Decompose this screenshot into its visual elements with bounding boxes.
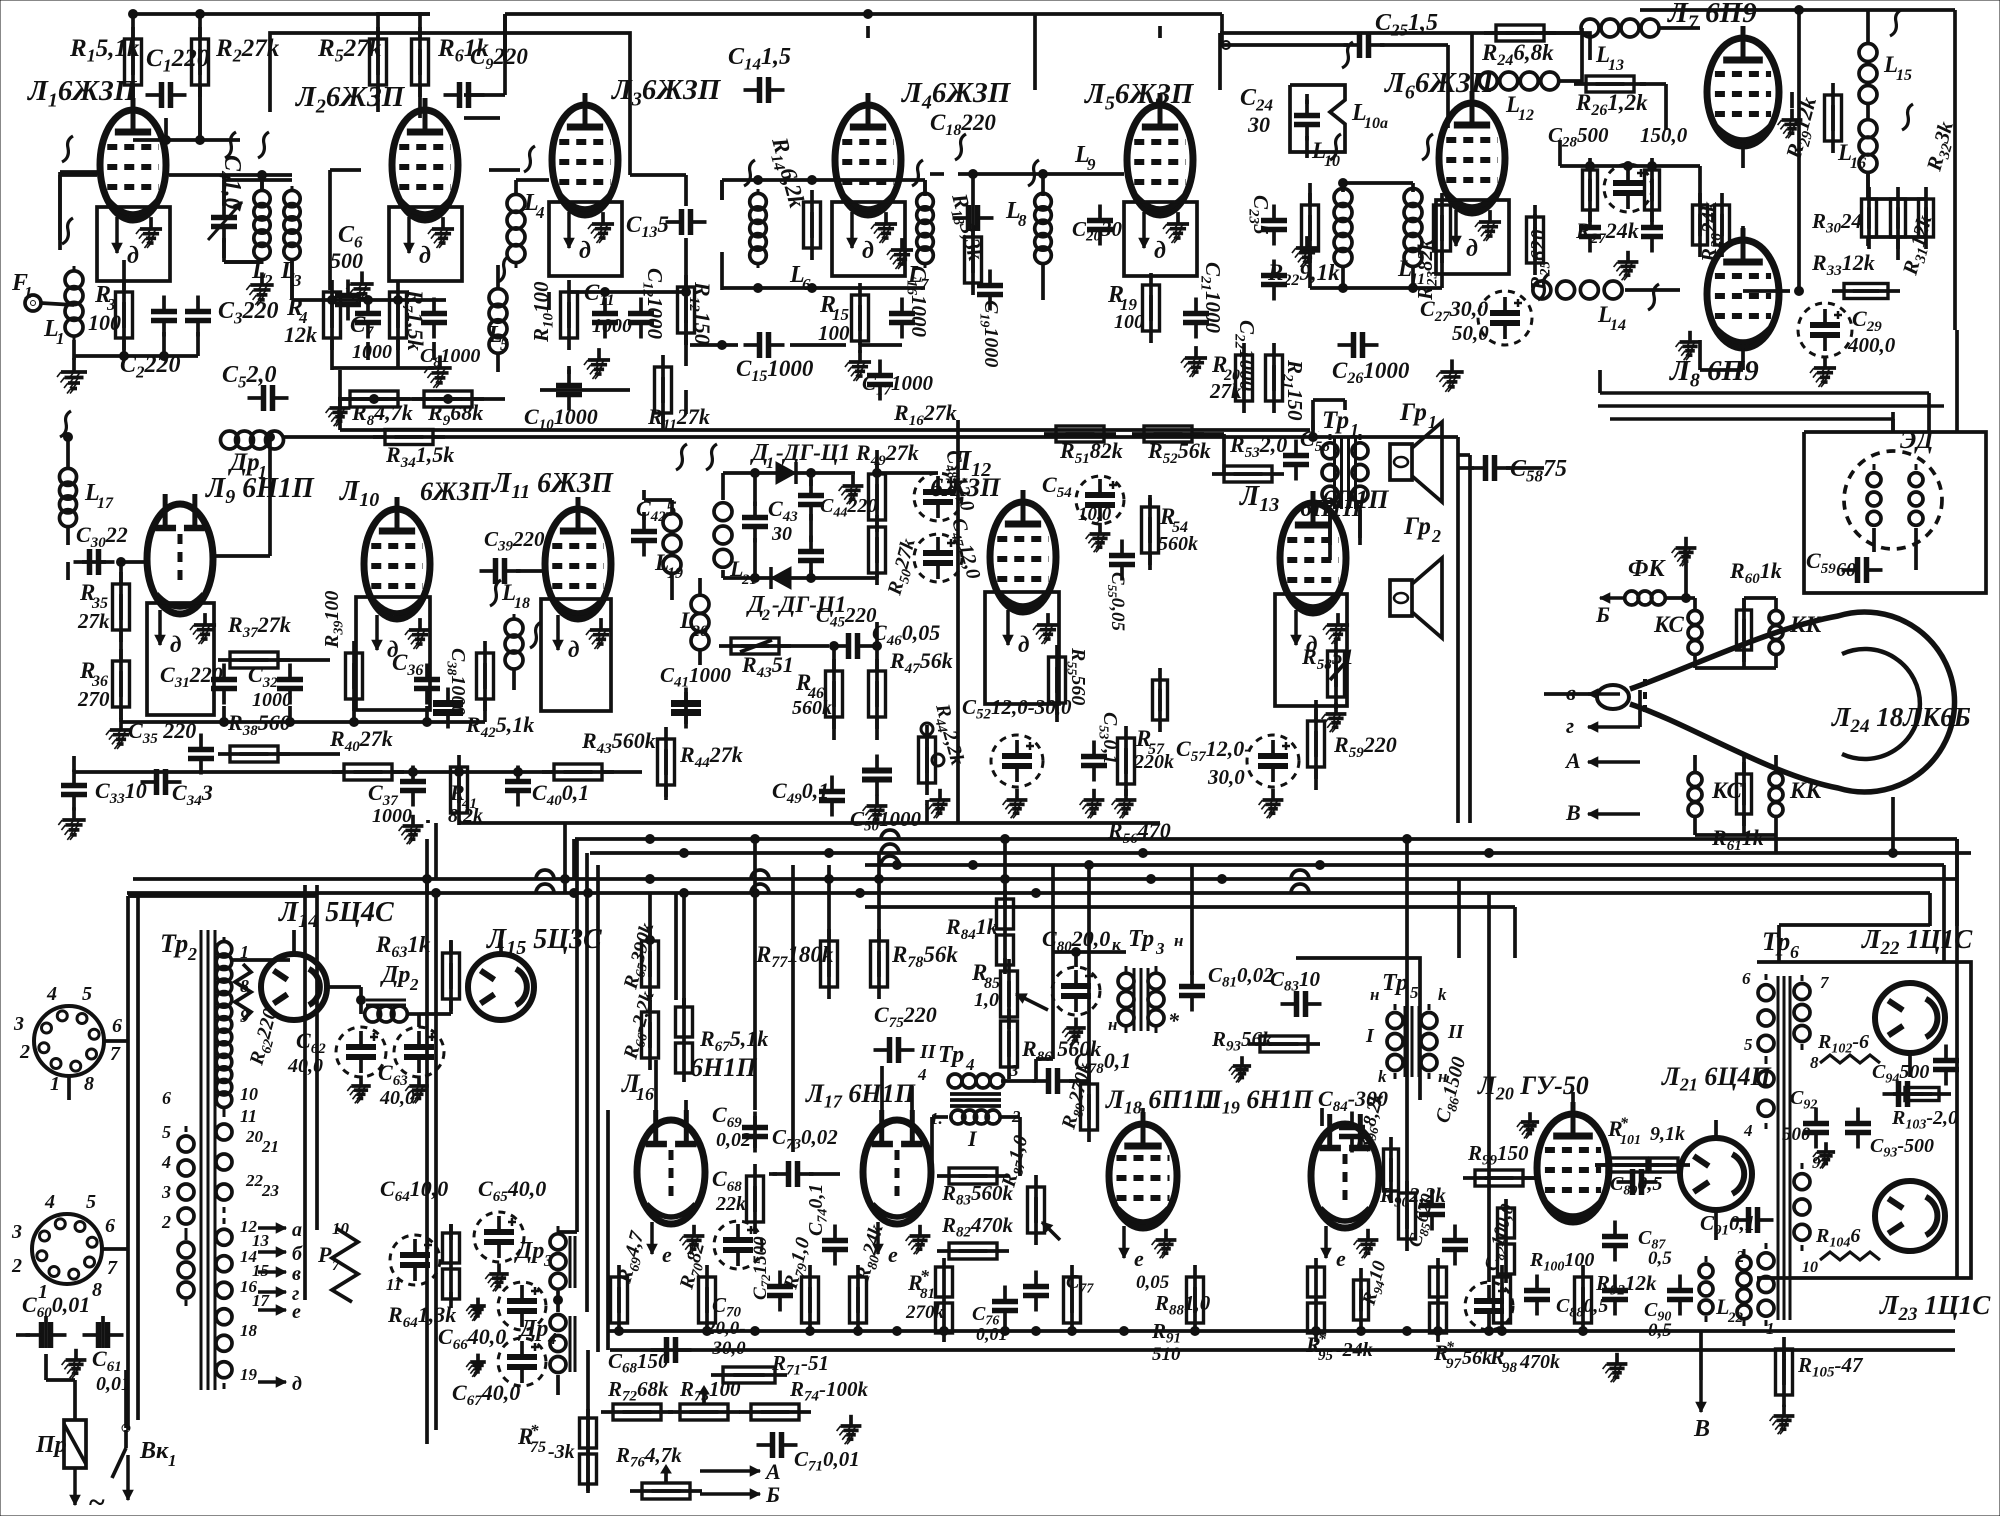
wire Тр3 [0,0,1,1]
svg-text:C6: C6 [338,222,363,251]
svg-text:6: 6 [1742,969,1751,988]
svg-text:C3220: C3220 [218,298,279,327]
wire mid band2 [340,400,1310,430]
coil L1 [43,266,83,348]
capacitor C25 [1344,10,1439,58]
svg-text:97: 97 [1446,1356,1462,1372]
svg-text:4: 4 [44,1191,55,1213]
svg-text:C24: C24 [1240,85,1273,114]
wire bottom right [0,0,1,1]
wire L20L21 [698,578,702,665]
capacitor C45 [798,536,877,631]
choke Др4 [518,1306,575,1381]
capacitor C46 [833,620,941,659]
svg-text:5: 5 [500,335,509,354]
svg-text:C161000: C161000 [903,266,931,338]
wire Л20 [1523,1092,1609,1178]
wire R40 row [74,768,666,801]
svg-text:R3312k: R3312k [1811,250,1875,279]
resistor R47 [869,648,953,729]
ground [1112,789,1137,818]
svg-text:R791,0: R791,0 [779,1235,817,1293]
ground [1080,789,1105,818]
svg-text:560k: 560k [1158,533,1198,555]
svg-text:Гр: Гр [1399,399,1427,426]
resistor R91 [1151,1265,1204,1365]
arrow B [1693,1380,1710,1442]
tube Л1 6ЖЗП [27,75,170,281]
wire det out [779,622,944,823]
ground [1003,789,1028,818]
svg-text:2: 2 [11,1255,22,1277]
diode Д2 [746,567,846,624]
ground [1259,789,1284,818]
svg-text:4: 4 [965,1055,975,1074]
wire R54 area [1148,498,1152,570]
coil L4 [507,189,545,268]
resistor R82 [937,1213,1014,1259]
svg-text:27k: 27k [77,609,110,633]
svg-text:R968k: R968k [427,400,483,429]
wire stage2 [330,15,520,290]
wire C75 [0,0,1,1]
wire stage3 box [505,14,1590,90]
svg-text:R2382k: R2382k [1413,239,1441,301]
resistor small [1583,158,1660,222]
wire Л4 grids [722,180,925,200]
svg-text:C191000: C191000 [977,300,1002,367]
coil L3 [280,186,302,290]
wire bus [127,891,1930,895]
svg-text:Др: Др [514,1238,544,1264]
svg-text:Л46ЖЗП: Л46ЖЗП [901,77,1012,113]
svg-text:Гр: Гр [1403,513,1431,540]
wire Л6 plate [1470,33,1474,92]
capacitor C78 [1033,1048,1132,1094]
arrow Б2 [700,1482,780,1507]
resistor R19 [1107,273,1160,343]
svg-text:C710,01: C710,01 [794,1447,860,1475]
diode Д1 [750,440,850,484]
resistor R52 [1132,426,1211,467]
svg-text:Вк: Вк [139,1438,169,1464]
resistor R18 [943,190,989,295]
resistor R78 [871,929,959,999]
svg-text:4: 4 [1743,1121,1753,1140]
capacitor C71 [757,1432,860,1475]
capacitor C40 [505,766,589,809]
resistor R53 [1212,432,1287,482]
resistor R90 [1379,1181,1446,1251]
resistor R54 [1142,495,1199,565]
svg-text:C62: C62 [296,1028,326,1057]
wire grid row [60,175,97,240]
label 6П1П Тр1 [1300,496,1363,522]
capacitor C61 [83,1322,132,1395]
svg-text:1000: 1000 [592,315,632,337]
resistor R5 [317,27,387,97]
wire Др1 bus [282,435,1458,439]
resistor R67 [676,998,769,1082]
capacitor C85 [1405,1191,1468,1265]
wire Л11 stage [514,571,544,690]
ground [1603,1353,1628,1382]
wire CRT bottom [1889,797,1898,858]
svg-text:C61: C61 [92,1346,122,1375]
wire det top [723,450,938,506]
svg-text:R694,7: R694,7 [613,1228,652,1287]
resistor R103 [1891,1088,1958,1133]
capacitor C75 [874,1002,937,1063]
tube Л11 6ЖЗП [491,468,614,662]
wire R4 bus [332,340,434,370]
wire КС2 [1695,755,1776,853]
capacitor C60 [22,1292,90,1348]
svg-text:R2724k: R2724k [1575,218,1639,247]
arrow А2 [700,1459,781,1484]
ground [485,1264,509,1292]
svg-text:C135: C135 [626,212,669,241]
socket X2 [11,1191,118,1303]
resistor R74 [739,1377,869,1420]
svg-text:C141,5: C141,5 [728,44,791,73]
svg-text:C411000: C411000 [660,663,732,691]
svg-text:1000: 1000 [352,341,392,363]
svg-text:н: н [1174,931,1183,950]
svg-text:C68: C68 [712,1166,742,1195]
tube Л19 6Н1П [1203,1085,1379,1271]
wire Л16 anode [650,988,686,1122]
capacitor C17 [862,360,934,401]
tube Л12 6ЖЗП [930,446,1059,657]
svg-text:4: 4 [547,1329,557,1348]
resistor R35 [77,572,130,642]
svg-text:C45220: C45220 [816,603,877,631]
wire Л5 plate [1035,14,1222,45]
svg-text:Л14 5Ц4С: Л14 5Ц4С [278,897,394,932]
coil L9 [1074,142,1096,174]
ground [246,272,273,304]
wire C13 [630,175,691,297]
svg-text:R1046: R1046 [1815,1225,1860,1250]
wire Л10 stage [0,0,1,1]
resistor R50 [869,515,923,599]
cathode box Л12 [985,592,1059,704]
svg-text:R73100: R73100 [679,1377,741,1405]
svg-text:1: 1 [766,455,774,472]
pot R44b [919,701,969,795]
svg-text:R675,1k: R675,1k [699,1026,768,1055]
capacitor C50 [850,755,922,835]
ground [584,348,610,379]
coil L8 [1005,189,1051,268]
svg-text:C261000: C261000 [1332,358,1410,387]
svg-text:C68150: C68150 [608,1349,669,1377]
wire bus [865,863,1944,867]
ground [62,1349,87,1378]
svg-text:8: 8 [1018,211,1027,230]
wire drop mid [650,839,1489,1282]
capacitor C83 [1270,967,1322,1017]
svg-text:R39100: R39100 [321,591,346,649]
capacitor C92 [1782,1087,1871,1149]
coil L19 [654,506,683,582]
arrow г [1566,713,1640,738]
wire [722,252,925,293]
resistor R77 [755,929,838,999]
resistor R37 [218,612,291,668]
capacitor C21 [1183,262,1225,339]
tube Л6 6ЖЗП [1384,67,1509,274]
resistor R49 [855,440,919,532]
svg-text:7: 7 [110,1043,121,1065]
resistor R38 [218,710,291,762]
svg-text:R43560k: R43560k [581,728,656,757]
svg-text:Л18 6П1П: Л18 6П1П [1105,1085,1216,1118]
svg-text:C910,1: C910,1 [1700,1211,1755,1239]
wire right edge [1955,330,1959,432]
svg-text:2: 2 [1735,1247,1745,1266]
svg-text:5: 5 [162,1122,171,1142]
resistor R71 [711,1351,829,1383]
resistor R2 [192,27,280,97]
ground [845,350,871,381]
wire Л21 [1714,1120,1718,1240]
capacitor C58 [1470,455,1568,485]
capacitor C84 [1318,1086,1388,1153]
resistor R46 [792,659,843,729]
electrolytic [1604,164,1652,212]
svg-text:R3112k: R3112k [1897,212,1940,279]
coil L5 [487,284,509,358]
svg-text:Тр: Тр [160,929,188,958]
svg-text:А: А [1564,748,1581,773]
wire L4 [498,180,641,372]
svg-text:R2824k: R2824k [1697,201,1725,263]
svg-text:R74-100k: R74-100k [789,1377,869,1405]
svg-text:1000: 1000 [252,689,292,711]
wire C80 Тр3 [1053,948,1126,968]
wire Тр1 [1309,400,1361,545]
resistor R44 [658,727,743,797]
wire Л5grid [930,170,1124,237]
svg-text:е: е [292,1301,301,1323]
wire Тр4 [932,1059,1036,1176]
svg-text:2: 2 [263,271,273,290]
svg-text:81: 81 [920,1286,935,1302]
capacitor C74 [805,1184,848,1266]
tube Л4 6ЖЗП [832,77,1012,276]
wire И curls [60,10,1913,648]
svg-text:3: 3 [161,1182,171,1202]
wire row1 gnd bus [340,366,663,430]
resistor R29 [1780,83,1841,163]
coil L10 [1311,138,1352,271]
svg-text:R102-6: R102-6 [1817,1031,1869,1056]
svg-text:Л11 6ЖЗП: Л11 6ЖЗП [491,468,614,503]
svg-text:3: 3 [1155,939,1165,958]
wire CRT feeds [1544,690,1640,727]
resistor R58 [1301,639,1354,709]
pot R85 [971,959,1048,1029]
svg-text:10: 10 [240,1084,258,1104]
wire power top [128,894,317,898]
svg-text:R105-47: R105-47 [1797,1353,1864,1381]
svg-text:е: е [888,1242,898,1267]
label ~ [88,1486,105,1516]
wire R84 R85 [1005,958,1053,1059]
svg-text:19: 19 [240,1365,258,1384]
cathode box Л9 [147,603,214,715]
svg-text:R21150: R21150 [1279,359,1307,421]
svg-text:17: 17 [252,1291,271,1310]
svg-text:C460,05: C460,05 [872,620,940,649]
coil КС1 [1653,604,1702,661]
resistor R69 [611,1228,652,1335]
svg-text:C343: C343 [172,780,213,809]
wire Л9 left [117,558,147,723]
svg-text:C5875: C5875 [1510,456,1567,485]
wire [224,180,292,300]
capacitor C86 [1419,1055,1474,1231]
svg-text:*: * [1446,1339,1455,1356]
wire L10a [1305,94,1309,158]
svg-text:C730,02: C730,02 [772,1125,838,1153]
resistor R43 [719,638,794,681]
motor ЭД box [1804,432,1986,593]
svg-text:18: 18 [514,595,530,612]
svg-text:560k: 560k [792,697,832,719]
resistor R68 [712,1164,764,1234]
svg-text:470k: 470k [1519,1351,1560,1373]
svg-text:ФК: ФК [1628,556,1666,582]
tube Л13 6П1П [1239,481,1389,657]
svg-text:k: k [1438,985,1447,1004]
capacitor C34 [141,769,213,809]
resistor R12 [678,275,716,345]
coil L16r [1837,114,1877,178]
svg-text:Р: Р [317,1242,332,1267]
capacitor C68b [608,1337,692,1377]
svg-text:*: * [1168,1008,1180,1033]
svg-text:500: 500 [1782,1124,1811,1145]
resistor R11 [647,355,710,433]
svg-text:Л26ЖЗП: Л26ЖЗП [295,81,406,117]
wire bus bottom [608,1331,1955,1350]
svg-text:C890,5: C890,5 [1610,1173,1662,1198]
svg-text:2: 2 [761,607,770,624]
svg-text:2: 2 [409,975,419,994]
ground [1770,1405,1795,1434]
wire L8bot [1041,262,1045,300]
svg-text:9,1k: 9,1k [1650,1123,1685,1145]
svg-text:1: 1 [50,1073,60,1095]
tube Л10 6ЖЗП [339,476,491,662]
tube Л20 ГУ-50 [1477,1071,1609,1222]
resistor R86 [1001,1009,1102,1079]
svg-text:C550,05: C550,05 [1105,572,1128,631]
resistor R1 [69,27,142,97]
svg-text:7: 7 [332,1258,340,1274]
capacitor C8 [420,298,480,371]
wire Тр2 taps [232,958,290,962]
svg-text:R84,7k: R84,7k [351,400,413,429]
svg-text:Л19 6Н1П: Л19 6Н1П [1203,1085,1314,1118]
wire R3C2 [74,260,198,361]
resistor R104 [1815,1225,1880,1260]
svg-text:R841k: R841k [945,914,998,943]
svg-text:6: 6 [105,1215,115,1237]
bus hops [536,830,1309,893]
motor ЭД [1844,427,1942,549]
wire bus corners [865,879,1515,958]
arrow А [1564,748,1640,773]
capacitor C11 [584,280,632,339]
svg-text:20: 20 [691,623,708,640]
transformer Тр3 [1108,926,1183,1034]
wire out box [1908,1053,1912,1077]
resistor R96 [1352,1090,1398,1203]
svg-text:98: 98 [1502,1360,1518,1376]
coil L17 [59,464,114,531]
wire right top [1900,10,1955,105]
svg-text:C721500: C721500 [750,1236,773,1300]
svg-text:C6540,0: C6540,0 [478,1176,546,1205]
svg-text:7: 7 [107,1257,118,1279]
resistor R63 [375,932,460,1011]
ground [1810,356,1836,387]
svg-text:6ЖЗП: 6ЖЗП [420,477,491,506]
resistor R30c [1811,187,1934,249]
svg-text:R15,1k: R15,1k [69,35,140,66]
svg-text:11: 11 [240,1106,257,1126]
capacitor C49 [772,776,845,817]
svg-text:10а: 10а [1364,115,1388,132]
svg-text:R601k: R601k [1729,558,1782,587]
svg-text:40,0: 40,0 [379,1087,415,1109]
capacitor C27 [1420,291,1532,345]
svg-text:10: 10 [332,1219,350,1238]
svg-text:16: 16 [1850,155,1866,172]
wire [1640,6,1900,296]
capacitor C15 [736,332,814,385]
capacitor C23 [1245,195,1287,246]
resistor R36 [77,649,130,719]
svg-text:д: д [419,243,431,269]
capacitor C73 [772,1125,838,1187]
svg-text:Л8 6П9: Л8 6П9 [1669,355,1759,391]
svg-text:C63: C63 [378,1060,408,1089]
svg-text:R527k: R527k [317,35,382,66]
wire bottom right frame [1779,839,1957,1278]
arrow В [1565,800,1640,825]
ground [58,807,85,839]
choke Др1 [221,431,284,482]
gnd top [1672,537,1697,566]
svg-text:Л10: Л10 [339,476,379,511]
speaker Гр2 [1390,513,1442,638]
svg-text:R8024k: R8024k [851,1222,891,1285]
svg-text:б: б [292,1243,303,1265]
resistor R15 [818,283,869,353]
svg-text:R4756k: R4756k [889,648,953,677]
transformer Тр1 [1322,407,1368,511]
wire Л8 [1676,226,1743,370]
electrolytic C80 [1042,926,1110,1015]
coil L20 [679,589,709,656]
svg-text:C381000: C381000 [444,648,469,715]
svg-text:Л23 1Ц1С: Л23 1Ц1С [1879,1290,1991,1325]
